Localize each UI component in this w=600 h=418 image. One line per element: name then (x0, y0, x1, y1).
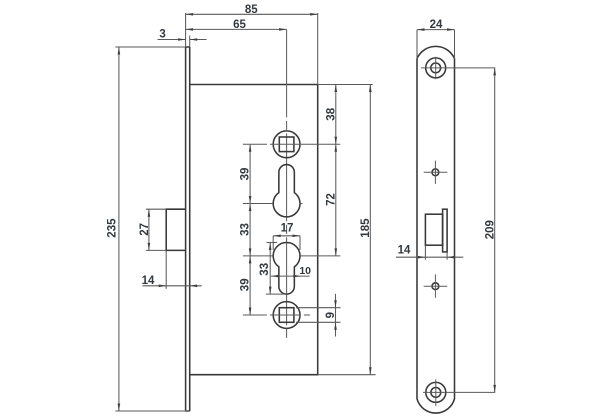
dimension chain 38/72 (right of case) (318, 85, 373, 256)
dimension 65 (backset) (186, 19, 287, 31)
dimension 10 (stem width) (271, 265, 311, 277)
centerline at upper bulb (243, 203, 273, 205)
dimension 9 (square follower size) (296, 294, 341, 337)
faceplate outline (rounded ends) (417, 46, 455, 413)
dimension 185 (case height) (318, 85, 376, 375)
dimension 14 (bolt throw, side view) (142, 250, 202, 288)
vertical centerline through holes (286, 29, 288, 339)
deadbolt protruding (side view) (166, 209, 185, 250)
deadbolt front view (425, 209, 447, 252)
lower small hole (424, 275, 448, 298)
top screw hole (421, 57, 450, 79)
dimension 209 (screw centres) (450, 68, 497, 393)
centerline through bottom follower (243, 314, 311, 316)
dimension 24 (faceplate width) (417, 19, 455, 59)
svg-text:235: 235 (106, 218, 118, 238)
dimension 17 (bulb diameter) (273, 222, 300, 250)
svg-text:33: 33 (240, 223, 252, 236)
centerline at lower bulb (243, 255, 273, 257)
follower hole top (square spindle) (273, 131, 300, 158)
svg-text:17: 17 (281, 222, 294, 234)
centerline through top follower (243, 143, 340, 145)
cylinder hole upper (euro profile, bulb down) (273, 165, 300, 217)
svg-text:33: 33 (259, 263, 271, 276)
dimension 27 (deadbolt height) (139, 209, 166, 250)
svg-text:27: 27 (139, 223, 151, 236)
svg-text:72: 72 (326, 193, 338, 206)
svg-text:24: 24 (430, 19, 443, 31)
dimension 14 (bolt throw, front view) (396, 245, 463, 260)
svg-text:85: 85 (245, 4, 258, 16)
svg-text:3: 3 (159, 28, 165, 40)
svg-text:209: 209 (485, 220, 497, 239)
svg-text:38: 38 (326, 107, 338, 120)
svg-text:9: 9 (325, 312, 337, 318)
dimension 85 (top, case depth) (186, 4, 318, 84)
svg-text:14: 14 (142, 275, 155, 287)
left view: lock case side elevation (166, 29, 340, 411)
cylinder hole lower (euro profile, bulb up) (273, 242, 300, 294)
dimension chain 39/33/39 (hole spacings) (240, 144, 252, 315)
right view: faceplate front elevation (417, 46, 455, 413)
svg-text:185: 185 (360, 218, 372, 238)
faceplate edge (side view, 3mm strip) (186, 47, 190, 411)
dimension 235 (faceplate height) (106, 47, 189, 411)
lock body outline (190, 85, 318, 375)
svg-text:14: 14 (398, 245, 411, 257)
follower hole bottom (square spindle) (273, 302, 300, 329)
upper small hole (424, 161, 448, 184)
bottom screw hole (423, 379, 450, 406)
svg-text:10: 10 (299, 265, 311, 277)
dimension 33 (cylinder hole height) (259, 243, 287, 295)
dimension 3 (faceplate thickness) (158, 28, 207, 47)
svg-text:39: 39 (240, 278, 252, 291)
svg-text:65: 65 (233, 19, 246, 31)
svg-text:39: 39 (240, 168, 252, 181)
